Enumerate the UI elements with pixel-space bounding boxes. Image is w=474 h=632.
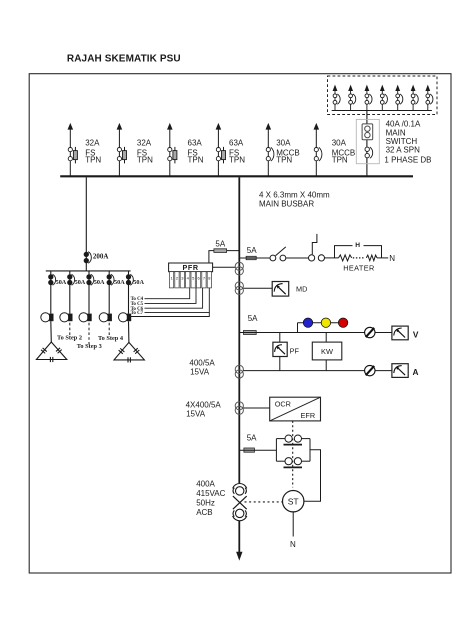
svg-text:N: N: [389, 254, 395, 263]
cap step 1: contactor C3: [41, 313, 50, 322]
cap step 3: wire: [88, 271, 90, 314]
main riser wire: [238, 177, 240, 483]
wire lamp stub: [297, 323, 299, 333]
svg-text:32 A SPN: 32 A SPN: [386, 145, 420, 154]
svg-text:30A: 30A: [276, 139, 291, 148]
CT3 (ammeter): [235, 365, 243, 378]
svg-text:To Step 2: To Step 2: [57, 334, 82, 341]
indicator lamp yellow: [321, 318, 330, 327]
wire to V meter: [375, 332, 392, 334]
DB fuse-switch 4: [380, 85, 388, 111]
svg-text:To Step 3: To Step 3: [77, 343, 102, 350]
wire heater to neutral: [377, 257, 388, 259]
svg-text:H: H: [355, 242, 360, 249]
svg-text:TPN: TPN: [137, 156, 153, 165]
meter V: [392, 326, 408, 340]
wire step1 to delta bank 1: [50, 321, 53, 342]
cap step 2: dashed lead To Step 2: [69, 323, 71, 337]
svg-text:63A: 63A: [188, 139, 203, 148]
cap step 1: fuse 50A: [49, 274, 56, 285]
svg-text:ACB: ACB: [196, 508, 212, 517]
feeder F6 30A MCCB TPN: [314, 123, 322, 176]
cap step 5: fuse 50A: [126, 274, 133, 285]
svg-text:400A: 400A: [196, 479, 215, 488]
svg-text:50A: 50A: [114, 279, 125, 286]
heater element dotted link: [353, 257, 365, 259]
cap step 4: dashed lead To Step 4: [108, 323, 110, 337]
svg-text:4 X 6.3mm X 40mm: 4 X 6.3mm X 40mm: [259, 191, 330, 200]
wire CT4 to OCR: [243, 407, 269, 409]
fuse 5A (closing circuit): [244, 448, 255, 452]
svg-text:TPN: TPN: [188, 156, 204, 165]
cap step 4: wire: [108, 271, 110, 314]
svg-text:63A: 63A: [229, 139, 244, 148]
CT1 (PFR current input): [235, 262, 243, 275]
svg-text:To Step 4: To Step 4: [98, 335, 124, 342]
main switch fuse block U-MS: [362, 124, 373, 140]
wire 200A riser: [85, 177, 87, 271]
cap step 3: dashed lead To Step 3: [88, 323, 90, 345]
wire PFR pin8 to step5 contactor: [131, 312, 209, 316]
meter MD: [272, 282, 289, 297]
svg-text:15VA: 15VA: [186, 410, 206, 419]
svg-text:30A: 30A: [332, 139, 347, 148]
wire PF to A-row: [279, 357, 281, 371]
main busbar: [60, 175, 413, 177]
svg-text:MD: MD: [296, 284, 307, 293]
svg-text:32A: 32A: [137, 139, 152, 148]
meter PF: [273, 342, 287, 356]
DB fuse-switch 7: [425, 85, 433, 111]
svg-text:PF: PF: [290, 346, 300, 355]
feeder F1 32A FS TPN: [68, 123, 78, 176]
main switch enclosure (grey): [356, 119, 379, 163]
wire PFR pin5 to C5: [145, 288, 197, 304]
svg-text:ST: ST: [288, 496, 300, 506]
CT4 (protection): [235, 402, 243, 415]
cap step 2: wire: [69, 271, 71, 314]
wire PFR CT input: [213, 266, 236, 268]
cap step 4: contactor C6: [99, 313, 108, 322]
svg-text:TPN: TPN: [229, 156, 245, 165]
cap step 2: fuse 50A: [68, 274, 75, 285]
feeder F5 30A MCCB TPN: [266, 123, 274, 176]
svg-text:PFR: PFR: [183, 263, 199, 272]
border frame: [29, 74, 451, 573]
wire step5 to delta bank 2: [128, 321, 130, 342]
coil ST (shunt trip): [283, 491, 304, 512]
fuse 5A (PFR supply): [214, 249, 227, 253]
svg-text:1 PHASE DB: 1 PHASE DB: [384, 156, 431, 165]
DB internal bus: [332, 110, 432, 112]
aux contact block left leg: [275, 439, 277, 462]
cap step 1: wire: [50, 271, 52, 314]
svg-text:15VA: 15VA: [190, 367, 210, 376]
CT2 (MD meter): [235, 282, 243, 295]
fuse isolator (V meter): [365, 327, 375, 337]
capacitor delta bank 1: [36, 342, 66, 362]
cap step 2: contactor C4: [60, 313, 69, 322]
wire closing to ST coil: [304, 450, 321, 501]
main switch contact: [365, 147, 373, 158]
relay OCR/EFR: [270, 397, 321, 421]
wire lamp/V branch: [239, 332, 364, 334]
breaker ACB drawout contact bottom: [233, 509, 247, 521]
svg-text:TPN: TPN: [276, 156, 292, 165]
heater bypass link H: [335, 246, 382, 258]
wire KW to A-row: [325, 360, 327, 371]
wire ACB outgoing: [238, 521, 240, 552]
wire ST trip link (dotted): [245, 501, 283, 503]
svg-text:N: N: [290, 540, 296, 549]
svg-text:400/5A: 400/5A: [189, 359, 215, 368]
fuse 5A (heater branch): [246, 256, 256, 259]
svg-text:4X400/5A: 4X400/5A: [186, 401, 222, 410]
wire ammeter branch: [243, 370, 364, 372]
svg-text:TPN: TPN: [85, 156, 101, 165]
indicator lamp red: [338, 318, 347, 327]
svg-text:50A: 50A: [56, 279, 67, 286]
breaker ACB contact X: [233, 496, 247, 509]
cap step 4: fuse 50A: [107, 274, 114, 285]
DB fuse-switch 1: [333, 85, 341, 111]
svg-text:50A: 50A: [133, 279, 144, 286]
svg-text:5A: 5A: [247, 433, 257, 442]
feeder F4 63A FS TPN: [216, 123, 226, 176]
indicator lamp blue: [303, 318, 312, 327]
DB fuse-switch 6: [411, 85, 419, 111]
aux contact top pair: [276, 435, 310, 445]
wire thermostat to heater: [325, 257, 339, 259]
svg-text:RAJAH SKEMATIK PSU: RAJAH SKEMATIK PSU: [67, 53, 181, 64]
PFR pin strip: [169, 272, 211, 288]
wire S1 to thermostat: [286, 257, 309, 259]
svg-text:A: A: [413, 367, 419, 377]
DB fuse-switch 5: [395, 85, 403, 111]
feeder F3 63A FS TPN: [167, 123, 177, 176]
svg-text:50Hz: 50Hz: [196, 499, 215, 508]
wire PFR pin6 to C6: [145, 288, 203, 308]
thermostat contact S2: [309, 234, 325, 261]
svg-text:5A: 5A: [215, 239, 225, 248]
heater element R2: [366, 255, 377, 261]
capacitor delta bank 2: [114, 342, 144, 362]
svg-text:32A: 32A: [85, 139, 100, 148]
wire PF tap: [279, 333, 281, 343]
DB fuse-switch 3 (feeds main switch): [365, 85, 373, 111]
svg-text:To C7: To C7: [131, 311, 144, 316]
breaker ACB drawout contact top: [233, 484, 247, 496]
svg-text:5A: 5A: [248, 314, 258, 323]
phase DB dashed enclosure: [328, 76, 438, 115]
PFR pin numbers 1-8: [170, 275, 211, 280]
main switch incoming wire: [366, 111, 368, 176]
svg-text:OCR: OCR: [275, 400, 291, 409]
svg-text:MAIN BUSBAR: MAIN BUSBAR: [259, 200, 314, 209]
fuse isolator (A meter): [365, 365, 375, 375]
heater element R1: [339, 255, 352, 261]
fuse 5A (lamp/V branch): [244, 331, 257, 335]
outgoing arrow: [236, 552, 242, 561]
DB fuse-switch 2: [348, 85, 356, 111]
svg-text:50A: 50A: [94, 279, 105, 286]
svg-text:415VAC: 415VAC: [196, 489, 225, 498]
svg-text:200A: 200A: [93, 253, 109, 261]
svg-text:V: V: [413, 329, 419, 339]
svg-text:KW: KW: [321, 347, 333, 356]
svg-text:50A: 50A: [75, 279, 86, 286]
switch S1 (heater isolator): [270, 247, 286, 261]
aux contact bottom pair: [276, 458, 310, 468]
feeder F2 32A FS TPN: [117, 123, 127, 176]
svg-text:EFR: EFR: [301, 411, 316, 420]
cap step 3: contactor C5: [79, 313, 88, 322]
wire closing branch: [239, 449, 276, 451]
meter A: [392, 364, 408, 378]
meter KW: [312, 342, 342, 360]
wire PFR supply riser: [209, 251, 239, 263]
wire CT2 to MD meter: [243, 287, 272, 289]
capacitor distribution bus: [46, 270, 131, 272]
aux contact block right leg: [309, 439, 311, 462]
svg-text:5A: 5A: [247, 246, 257, 255]
wire PFR pin7 to C7: [145, 288, 210, 313]
PFR relay U-PFR: [169, 263, 213, 272]
svg-text:TPN: TPN: [332, 156, 348, 165]
wire to A meter: [375, 370, 392, 372]
switch 200A: [84, 252, 91, 264]
wire lamp bus: [298, 322, 344, 324]
cap step 5: wire: [128, 271, 130, 314]
wire OCR trip (dotted): [292, 421, 294, 488]
wire KW tap: [325, 333, 327, 343]
svg-text:HEATER: HEATER: [343, 263, 374, 272]
cap step 5: contactor C7: [119, 313, 128, 322]
wire ST to neutral: [292, 512, 294, 537]
cap step 3: fuse 50A: [87, 274, 94, 285]
wire heater branch: [239, 257, 270, 259]
wire PFR pin4 to C4: [145, 288, 190, 299]
